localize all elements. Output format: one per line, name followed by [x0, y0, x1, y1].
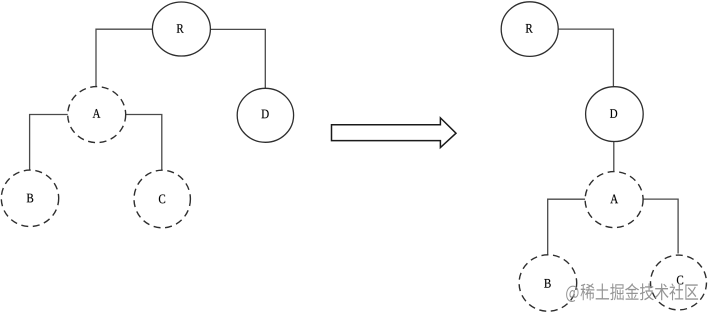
wire left R to A elbow — [96, 29, 153, 87]
wire left A to B elbow — [30, 115, 68, 171]
node D right tree — [586, 87, 644, 142]
node R left tree — [152, 2, 210, 56]
node B left tree — [1, 170, 58, 226]
node D left tree — [237, 88, 293, 142]
wire right A to B elbow — [548, 199, 586, 255]
arrow — [332, 118, 457, 148]
node C left tree — [134, 170, 190, 228]
watermark — [566, 283, 698, 302]
wire left A to C elbow — [124, 115, 162, 171]
wire left R to D elbow — [211, 29, 266, 88]
node C right tree — [651, 255, 707, 310]
wire right R to D elbow — [558, 29, 613, 87]
wire right D to A — [613, 142, 615, 172]
node A left tree — [68, 87, 126, 143]
node R right tree — [501, 2, 558, 57]
node A right tree — [585, 172, 643, 228]
wire right A to C elbow — [643, 199, 678, 253]
node B right tree — [519, 255, 577, 311]
